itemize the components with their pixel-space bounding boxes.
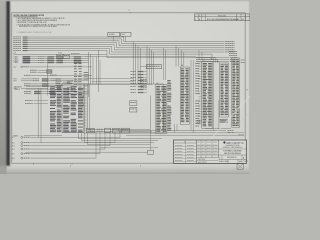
zone tick bottom 2 bbox=[72, 163, 142, 168]
net *DTACK wire bbox=[13, 46, 234, 52]
company name text bbox=[226, 142, 244, 145]
svg-text:U6: U6 bbox=[181, 65, 183, 67]
latch U13 under U8 bbox=[220, 119, 227, 122]
net labels right of bus verticals bbox=[141, 79, 147, 88]
top scan edge bbox=[0, 0, 250, 1]
paper crease light bbox=[196, 86, 250, 150]
svg-text:DR: DR bbox=[184, 141, 186, 143]
verticals right of CPU down to bends bbox=[88, 84, 152, 131]
svg-text:J7-4: J7-4 bbox=[12, 149, 15, 151]
bottom bus rails bbox=[118, 128, 244, 135]
connector pin J7-5 bbox=[12, 153, 100, 156]
mid rails y78-84 bbox=[84, 78, 152, 84]
wires CPU top labels bbox=[14, 86, 50, 91]
resistor R5 pullup pair bbox=[30, 70, 52, 73]
connector pin J7-6 bbox=[12, 157, 96, 160]
IC U5 RAM column bbox=[167, 80, 171, 131]
resistor network row R1 bbox=[13, 56, 88, 59]
gate column 74LS stack bbox=[74, 61, 82, 96]
company address lines bbox=[222, 144, 242, 149]
CPU bottom label row bbox=[13, 134, 62, 137]
svg-text:*EXT: *EXT bbox=[13, 79, 17, 81]
zone tick bottom 1 bbox=[34, 163, 72, 168]
svg-text:REVISIONS: REVISIONS bbox=[218, 15, 226, 17]
corner stamp box bbox=[237, 164, 243, 169]
drops below U6 bbox=[175, 124, 178, 133]
svg-text:16 MHZ: 16 MHZ bbox=[109, 34, 115, 36]
page left edge shadow band bbox=[6, 0, 10, 166]
net label row y100 bbox=[25, 99, 48, 102]
filter box right of crystal bbox=[63, 54, 69, 58]
svg-text:1: 1 bbox=[195, 19, 196, 21]
right bus verticals x191-194 bbox=[191, 60, 193, 133]
bus drops to U6 bbox=[176, 46, 184, 67]
wire row y88.3 bbox=[13, 88, 48, 90]
net *IPL1 wire bbox=[13, 38, 234, 43]
drawing number row bbox=[218, 155, 246, 159]
arrow labels top right x230 bbox=[229, 51, 237, 56]
connector pin J7-4 bbox=[12, 148, 105, 151]
CPU pin name texture bbox=[50, 86, 84, 132]
CPU right pin stubs bbox=[84, 87, 87, 130]
vertical trunk x88.5 bbox=[89, 52, 91, 97]
svg-text:D: D bbox=[203, 15, 204, 17]
filter row C13 bbox=[24, 85, 89, 86]
left verticals x38 x41 bbox=[38, 88, 41, 143]
right bus verticals x213-219 bbox=[214, 57, 219, 131]
resistor pack RP3 texture bbox=[67, 81, 73, 95]
resistor network row R2 bbox=[13, 57, 88, 60]
svg-text:R: R bbox=[199, 15, 200, 17]
next assy cell bbox=[197, 158, 219, 164]
nested bus bends lower left bbox=[79, 133, 163, 144]
filter row C11 bbox=[13, 80, 88, 82]
zone letter left bbox=[9, 89, 11, 91]
IC U7 VIA column bbox=[202, 60, 213, 129]
vertical trunk x47.8 bbox=[47, 57, 49, 96]
drawing border frame bbox=[12, 13, 246, 164]
connector riser verticals bbox=[96, 132, 120, 158]
gate U16 under CPU bbox=[121, 128, 129, 133]
IC U8 SCC column bbox=[220, 63, 229, 117]
net wire row y75.5 bbox=[24, 75, 92, 76]
note 1 bbox=[17, 17, 65, 20]
bus vertical x98.7 bbox=[98, 50, 100, 92]
net *IPL0 wire bbox=[13, 37, 234, 42]
net *BG wire bbox=[13, 48, 212, 60]
svg-text:J7-3: J7-3 bbox=[12, 145, 15, 147]
net *BERR wire bbox=[13, 42, 234, 48]
svg-text:050-0001-00: 050-0001-00 bbox=[227, 157, 237, 159]
svg-text:apple computer inc.: apple computer inc. bbox=[226, 142, 244, 145]
vertical x150 from pullups bbox=[150, 96, 152, 151]
svg-text:J7-1: J7-1 bbox=[12, 137, 15, 139]
U7 left pin stubs bbox=[198, 64, 202, 124]
drawing title text bbox=[218, 149, 246, 155]
rail y147.8 bbox=[100, 147, 158, 149]
pull-up resistor rows left of U3 bbox=[131, 71, 148, 93]
note 5 bbox=[17, 31, 53, 34]
svg-text:U1 68000: U1 68000 bbox=[63, 82, 70, 84]
filter row R20 bbox=[24, 91, 89, 92]
labels between U6 and U7 bottom bbox=[197, 120, 202, 123]
labels right of U9 top bbox=[241, 60, 245, 63]
svg-text:J7-6: J7-6 bbox=[12, 158, 15, 160]
IC U4 RAM column bbox=[156, 83, 167, 134]
verticals into CPU top bbox=[93, 57, 100, 84]
gate U10 under CPU bbox=[87, 128, 95, 132]
gate labels x83 texture bbox=[84, 72, 89, 80]
note 3 bbox=[17, 21, 48, 24]
logic block U2 outline bbox=[84, 84, 164, 133]
connector pin J7-2 bbox=[12, 142, 115, 145]
rail across y57 bbox=[85, 56, 196, 58]
net *RESET wire bbox=[13, 50, 211, 60]
notes heading bbox=[13, 15, 45, 17]
bus drops to U7 bbox=[199, 50, 202, 60]
bottom right net labels bbox=[228, 130, 244, 135]
bus drops into U4 top bbox=[147, 46, 154, 85]
svg-text:ECO 0001 ENGINEERING RELEASE: ECO 0001 ENGINEERING RELEASE bbox=[207, 18, 239, 21]
bus stub labels right bbox=[196, 57, 237, 62]
CPU U1 MC68000 box bbox=[62, 82, 84, 132]
svg-text:MACINTOSH M68000: MACINTOSH M68000 bbox=[224, 152, 241, 155]
net label row y103 bbox=[25, 102, 48, 105]
right scan edge bbox=[249, 0, 250, 174]
note 4 bbox=[17, 23, 71, 26]
company header divider bbox=[217, 140, 219, 158]
svg-text:J7-5: J7-5 bbox=[12, 153, 15, 155]
svg-text:*BR M0400: *BR M0400 bbox=[14, 86, 22, 88]
title block outer bbox=[173, 140, 246, 163]
Apple logo bbox=[223, 141, 225, 144]
resistor network row R3 bbox=[13, 59, 88, 62]
svg-text:J7-2: J7-2 bbox=[12, 142, 15, 144]
oscillator Y2 module bbox=[121, 32, 131, 36]
filter row C12 bbox=[24, 83, 89, 84]
wire osc down bbox=[114, 36, 126, 41]
resistor pack RP2 texture bbox=[56, 79, 62, 93]
filter row R21 bbox=[24, 93, 89, 94]
IC U9 IWM column bbox=[232, 58, 240, 127]
bottom scan shadow bbox=[0, 164, 250, 174]
gate U15 x130 y108 bbox=[130, 107, 137, 112]
bends into U8 top bbox=[196, 57, 219, 63]
gate U12 under CPU bbox=[112, 128, 120, 133]
IC U6 ROM column bbox=[180, 65, 189, 124]
svg-text:J6-2: J6-2 bbox=[13, 67, 16, 69]
parts list mini table bbox=[197, 140, 219, 158]
gate U11 under CPU bbox=[97, 128, 111, 132]
oscillator Y1 16MHz bbox=[108, 32, 120, 36]
rail +5V horizontal bbox=[13, 53, 107, 55]
long wire y152 bbox=[25, 150, 154, 154]
scale sheet row bbox=[219, 159, 248, 163]
title block signature table bbox=[173, 140, 196, 163]
zone tick top bbox=[128, 10, 130, 13]
filter row C10 bbox=[13, 78, 88, 80]
bus drops into U5 top bbox=[163, 48, 165, 80]
label above gate column bbox=[71, 52, 80, 55]
net *IPL2 wire bbox=[13, 40, 234, 46]
net *VPA wire bbox=[13, 44, 234, 50]
connector pin row with circle bbox=[13, 66, 92, 69]
svg-text:U4: U4 bbox=[156, 83, 158, 85]
svg-text:SHEET 1 OF 2: SHEET 1 OF 2 bbox=[239, 161, 248, 163]
scan background bbox=[0, 0, 250, 174]
scanner bed left margin bbox=[0, 0, 7, 174]
connector pin J7-3 bbox=[12, 145, 110, 148]
zone letter right bbox=[247, 90, 249, 92]
crystal Y3 box bbox=[57, 53, 63, 59]
svg-text:*EXT: *EXT bbox=[13, 81, 17, 83]
U7 left pin label column bbox=[195, 63, 200, 126]
note 2 bbox=[17, 19, 57, 22]
bus verticals x133-140 bbox=[133, 42, 140, 85]
buffer box U2 label bbox=[140, 65, 162, 69]
connector pin J7-1 bbox=[12, 136, 120, 139]
revision block table bbox=[195, 14, 251, 21]
note 4 continued bbox=[19, 25, 58, 28]
resistor network row R4 bbox=[13, 61, 88, 64]
svg-text:8/3: 8/3 bbox=[237, 19, 239, 21]
gate U14 x130 y101 bbox=[130, 101, 137, 106]
